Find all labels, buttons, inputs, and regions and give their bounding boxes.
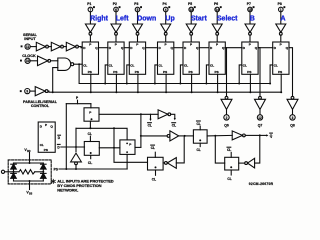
latch M3 <box>120 140 135 155</box>
wire P distribution horizontal <box>66 103 91 105</box>
wire A1 to A2 <box>48 46 51 48</box>
latch M2 <box>84 142 99 156</box>
P/S control buffer <box>35 87 45 96</box>
overbar D out <box>58 134 61 136</box>
svg-text:Start: Start <box>191 15 208 22</box>
junction B2 input tee <box>140 135 142 137</box>
wire Q6 buffer to pin <box>226 109 228 114</box>
svg-text:PS: PS <box>113 70 117 74</box>
junction M5 internal <box>155 166 157 168</box>
svg-text:9: 9 <box>26 90 28 94</box>
terminal pin 5 (P3) <box>135 7 140 12</box>
svg-text:CL: CL <box>227 177 231 181</box>
wire internal CL line to inverter V1 <box>75 128 77 151</box>
svg-text:P: P <box>165 43 167 47</box>
input inverter column 7 <box>245 24 255 32</box>
wire CL of FF4 to clock bus <box>155 65 158 84</box>
svg-text:CL: CL <box>227 148 231 152</box>
svg-text:CL: CL <box>197 122 201 126</box>
junction M3 internal bottom <box>126 151 128 153</box>
junction VDD rail <box>29 162 31 164</box>
svg-text:P8: P8 <box>278 2 282 6</box>
svg-text:SS: SS <box>29 193 33 196</box>
flip-flop stage FF8 <box>273 42 289 74</box>
output buffer Q7 <box>259 96 262 99</box>
junction CL bus / FF2 <box>104 83 106 85</box>
input inverter column 2 <box>111 24 121 32</box>
svg-text:P: P <box>115 43 117 47</box>
wire drop to B2 input and M3 output <box>140 114 142 147</box>
overbar CLbar M6 <box>227 146 231 148</box>
latch M1 <box>84 108 99 121</box>
wire M3 bottom stub to PS line end <box>126 154 128 169</box>
wire inverter to FF3 P input <box>137 35 139 42</box>
wire V3 feedback to B3 output <box>255 135 260 163</box>
wire inverter to FF4 P input <box>165 35 167 42</box>
svg-text:CL: CL <box>274 63 278 67</box>
wire A2 to A3 <box>63 46 66 48</box>
svg-text:PS: PS <box>215 70 219 74</box>
wire M6 to V3 bubble <box>239 162 245 164</box>
wire PS of FF1 to P/S bus <box>90 74 92 92</box>
wire P/S control bus <box>48 91 281 92</box>
svg-text:CL: CL <box>210 63 214 67</box>
svg-text:Left: Left <box>116 15 130 22</box>
svg-text:12: 12 <box>258 116 262 120</box>
wire Q7 to D of FF8 <box>258 47 273 49</box>
svg-text:Up: Up <box>165 15 174 22</box>
NAND gate clock gating <box>58 58 71 70</box>
svg-text:CONTROL: CONTROL <box>31 104 50 108</box>
svg-text:PS: PS <box>247 70 251 74</box>
clock buffer <box>38 56 48 66</box>
wire network to VSS <box>29 181 31 190</box>
buffer B2 (input bubble) <box>167 135 170 138</box>
protection-note mark for P8 <box>283 6 285 8</box>
svg-text:CL: CL <box>109 63 113 67</box>
wire P into latch M1 <box>90 104 92 108</box>
svg-text:P: P <box>249 43 251 47</box>
wire P net tap <box>77 100 79 104</box>
svg-text:CL: CL <box>88 161 92 165</box>
wire CL of FF5 to clock bus <box>180 65 183 84</box>
wire pin 10 to clock buffer <box>30 60 37 62</box>
junction CL bus / FF3 <box>126 83 128 85</box>
wire VDD to network <box>29 152 31 163</box>
svg-text:P: P <box>216 43 218 47</box>
wire PS line <box>59 168 127 170</box>
svg-text:NETWORK.: NETWORK. <box>57 188 78 193</box>
wire inverter to FF2 P input <box>115 35 117 42</box>
overbar CLbar tap <box>148 122 152 124</box>
wire pin P5 to inverter <box>190 12 192 24</box>
flip-flop stage FF3 <box>129 42 145 74</box>
flip-flop stage FF2 <box>108 42 124 74</box>
wire PS of FF4 to P/S bus <box>165 74 167 92</box>
serial buffer A3 <box>66 42 75 51</box>
wire Q4 to D of FF5 <box>174 47 183 49</box>
latch M6 <box>225 157 239 170</box>
serial buffer A1 <box>36 42 45 51</box>
junction PS line / P vertical <box>65 168 67 170</box>
wire M1 clock stub <box>89 121 91 128</box>
svg-text:92CM-26670R: 92CM-26670R <box>249 182 274 186</box>
svg-text:P4: P4 <box>163 2 167 6</box>
P/S control latch U10 <box>38 122 55 152</box>
junction P/S bus / FF8 <box>280 91 282 93</box>
svg-text:CL: CL <box>83 63 87 67</box>
svg-text:P: P <box>136 43 138 47</box>
junction M4 internal <box>199 139 201 141</box>
wire right diode column <box>42 163 44 181</box>
protection diode D4 <box>41 173 47 178</box>
svg-text:CL: CL <box>40 143 44 147</box>
buffer B3 <box>232 131 242 140</box>
wire V1 input from PS line <box>75 165 77 169</box>
junction M2 internal <box>90 152 92 154</box>
svg-text:CLOCK: CLOCK <box>22 54 36 58</box>
svg-text:3: 3 <box>292 116 294 120</box>
arrow to Qbar <box>260 134 267 136</box>
svg-text:INPUT: INPUT <box>24 37 36 41</box>
junction CL bus / FF8 <box>269 83 271 85</box>
terminal pin 4 (P4) <box>163 7 168 12</box>
junction M4 output node <box>214 135 216 137</box>
wire B1 output CLbar stub <box>171 114 175 118</box>
wire M5 to V2 bubble <box>163 162 164 164</box>
protection-note mark P/S control <box>20 90 22 92</box>
wire PS of FF3 to P/S bus <box>137 74 139 92</box>
junction B2 output / feedback <box>184 135 186 137</box>
svg-text:10: 10 <box>26 59 30 63</box>
wire NAND lower input to P/S line <box>53 68 58 93</box>
junction internal CL line / M1 <box>89 127 91 129</box>
wire CL of FF2 to clock bus <box>105 65 108 84</box>
svg-text:P3: P3 <box>134 2 138 6</box>
svg-text:P: P <box>129 142 131 146</box>
wire inverter to FF8 P input <box>280 35 282 42</box>
wire pin P3 to inverter <box>137 12 139 24</box>
overbar Dbar out <box>57 143 60 145</box>
junction P/S bus / FF4 <box>165 91 167 93</box>
flip-flop stage FF1 <box>82 42 98 74</box>
flip-flop stage FF6 <box>209 42 225 74</box>
overbar CLbar <box>172 122 176 124</box>
terminal pin 15 (P7) <box>248 7 253 12</box>
wire M5 clock stub <box>155 170 157 175</box>
svg-text:CL: CL <box>151 146 155 150</box>
svg-text:CL: CL <box>197 148 201 152</box>
junction P/S line / NAND input <box>52 91 54 93</box>
input terminal protection network <box>1 170 4 173</box>
wire A3 to FF1 D input <box>78 47 82 48</box>
protection-note mark serial input <box>21 45 23 47</box>
junction P/S bus / FF1 <box>90 91 92 93</box>
terminal pin 10 clock <box>25 58 30 63</box>
protection resistor <box>19 170 35 174</box>
wire inverter to FF7 P input <box>249 35 251 42</box>
svg-text:CL: CL <box>159 63 163 67</box>
junction M3 internal top <box>126 143 128 145</box>
junction CL bus / FF6 <box>205 83 207 85</box>
note asterisk <box>51 179 55 183</box>
wire inverter to FF5 P input <box>190 35 192 42</box>
wire pin 9 to P/S buffer <box>30 90 35 92</box>
svg-text:PS: PS <box>189 70 193 74</box>
junction Dbar line / V1 column <box>75 146 77 148</box>
svg-text:CL: CL <box>88 132 92 136</box>
wire clock buffer to NAND input <box>51 60 58 62</box>
terminal pin 13 (P5) <box>189 7 194 12</box>
wire CL of FF3 to clock bus <box>127 65 130 84</box>
terminal pin 7 (P1) <box>88 7 93 12</box>
wire PS of FF8 to P/S bus <box>280 74 282 92</box>
wire M6 CLbar stub <box>230 152 232 157</box>
svg-text:P6: P6 <box>214 2 218 6</box>
wire CL of FF8 to clock bus <box>270 65 273 84</box>
svg-text:P: P <box>190 43 192 47</box>
terminal pin 2 (Q6) <box>224 115 229 120</box>
wire network bottom rail <box>14 180 44 182</box>
junction CL bus / FF4 <box>154 83 156 85</box>
flip-flop stage FF7 <box>242 42 258 74</box>
svg-text:CL: CL <box>172 124 176 128</box>
protection-note mark for P3 <box>140 6 142 8</box>
svg-text:Right: Right <box>90 15 109 22</box>
terminal pin 6 (P2) <box>114 7 119 12</box>
wire pin P7 to inverter <box>249 12 251 24</box>
protection-note mark for P1 <box>93 6 95 8</box>
wire Q2 to D of FF3 <box>124 47 129 49</box>
wire M4 clock stub <box>199 143 201 146</box>
junction M6 internal <box>230 166 232 168</box>
protection-note mark for P2 <box>119 6 121 8</box>
svg-text:Q8: Q8 <box>290 123 295 127</box>
junction diode column left <box>13 171 15 173</box>
protection-note mark for P7 <box>253 6 255 8</box>
serial buffer A2 <box>51 42 60 51</box>
protection diode D1 <box>11 164 17 169</box>
protection-note mark clock <box>20 60 22 62</box>
input inverter column 3 <box>133 24 143 32</box>
PS inverter V1 <box>71 153 82 162</box>
svg-text:PS: PS <box>44 148 48 152</box>
wire Q6 tap from FF6 Q <box>225 48 226 97</box>
junction P/S bus / FF6 <box>217 91 219 93</box>
protection-note mark for P4 <box>168 6 170 8</box>
input inverter column 4 <box>161 24 171 32</box>
overbar CLbar M5 <box>151 144 155 146</box>
wire pin P1 to inverter <box>89 12 91 24</box>
wire B3 output <box>245 134 259 136</box>
wire Q8 buffer to pin <box>292 109 294 114</box>
feedback inverter V2 (points left) <box>165 162 168 165</box>
svg-text:P: P <box>89 43 91 47</box>
junction CL bus / FF5 <box>179 83 181 85</box>
wire B2 output to latch M4 <box>179 135 194 137</box>
wire M1 output to clock buffer B1 <box>99 113 158 115</box>
junction PS line / V1 <box>75 168 77 170</box>
svg-text:CL: CL <box>148 124 152 128</box>
protection network dashed box <box>8 160 51 184</box>
wire P distribution vertical <box>65 104 67 169</box>
wire M2 output to latch M3 <box>99 147 120 149</box>
wire Q1 to D of FF2 <box>99 47 108 49</box>
svg-text:P5: P5 <box>188 2 192 6</box>
svg-text:Q7: Q7 <box>258 123 263 127</box>
wire riser to latch M5 input <box>114 128 148 162</box>
svg-text:Q6: Q6 <box>224 123 229 127</box>
wire Q8 tap from FF8 Q <box>289 48 293 97</box>
wire M4 CLbar stub <box>199 126 201 130</box>
wire PS of FF2 to P/S bus <box>115 74 117 92</box>
wire Q7 buffer to pin <box>259 109 261 114</box>
protection diode D2 <box>11 173 17 178</box>
latch M5 <box>148 157 164 170</box>
wire resistor to diode column right <box>35 171 44 173</box>
wire Dbar line to latch M2 <box>61 146 85 148</box>
wire Q7 tap from FF7 Q <box>258 48 260 97</box>
wire Q3 to D of FF4 <box>146 47 158 49</box>
wire PS of FF5 to P/S bus <box>191 74 193 92</box>
input inverter column 5 <box>186 24 196 32</box>
overbar Qbar <box>270 132 273 134</box>
terminal pin 14 (P6) <box>215 7 220 12</box>
wire M2 clock stub <box>90 155 92 158</box>
svg-text:PS: PS <box>278 70 282 74</box>
input inverter column 1 <box>85 24 95 32</box>
latch M4 <box>193 130 207 143</box>
wire left diode column <box>13 163 15 181</box>
svg-text:CL: CL <box>184 63 188 67</box>
svg-text:2: 2 <box>226 116 228 120</box>
junction CL bus / FF7 <box>238 83 240 85</box>
wire inverter to FF1 P input <box>89 35 91 42</box>
svg-text:PS: PS <box>163 70 167 74</box>
wire network top rail <box>14 162 44 164</box>
flip-flop stage FF5 <box>183 42 199 74</box>
svg-text:P: P <box>89 110 91 114</box>
svg-text:P1: P1 <box>87 2 91 6</box>
wire M5 CLbar stub <box>154 152 156 157</box>
junction diode column right <box>42 171 44 173</box>
output buffer Q6 <box>225 96 228 99</box>
junction P/S bus / FF7 <box>249 91 251 93</box>
svg-text:PS: PS <box>135 70 139 74</box>
junction M1 output / B2 drop <box>140 113 142 115</box>
junction clock node <box>78 63 80 65</box>
junction P/S bus / FF5 <box>191 91 193 93</box>
svg-text:Down: Down <box>137 15 156 22</box>
wire M4 output to latch M6 <box>215 136 224 163</box>
wire M6 clock stub <box>230 170 232 175</box>
svg-text:CL: CL <box>130 63 134 67</box>
terminal pin 11 serial input <box>25 44 30 49</box>
overbar CLbar M4 <box>197 120 201 122</box>
terminal pin 1 (P8) <box>279 7 284 12</box>
protection-note mark for P6 <box>220 6 222 8</box>
wire CL tap stub <box>150 114 152 119</box>
wire into buffer B2 <box>141 135 167 137</box>
svg-text:11: 11 <box>26 45 30 49</box>
junction P/S bus / FF2 <box>115 91 117 93</box>
junction M2 output node <box>113 147 115 149</box>
wire CL into M2 top <box>89 136 91 141</box>
wire pin P2 to inverter <box>115 12 117 24</box>
feedback inverter V3 (points left) <box>245 162 248 165</box>
svg-text:A: A <box>281 15 286 22</box>
junction internal CL line / riser <box>113 127 115 129</box>
svg-text:P: P <box>280 43 282 47</box>
wire internal CL line into M3 top <box>76 128 127 140</box>
clock buffer B1 <box>158 110 168 119</box>
wire clock bus CL <box>79 64 270 83</box>
output buffer Q8 <box>291 96 294 99</box>
wire Q6 to D of FF7 <box>225 47 242 49</box>
wire M3 output to drop <box>135 146 141 148</box>
svg-text:DD: DD <box>27 150 31 153</box>
svg-text:P7: P7 <box>247 2 251 6</box>
svg-text:P2: P2 <box>113 2 117 6</box>
protection-note mark for P5 <box>194 6 196 8</box>
wire pin P4 to inverter <box>165 12 167 24</box>
svg-text:PS: PS <box>88 70 92 74</box>
wire pin 11 to buffer A1 <box>30 46 36 48</box>
terminal pin 12 (Q7) <box>257 115 262 120</box>
svg-text:CL: CL <box>152 177 156 181</box>
junction P/S bus / FF3 <box>137 91 139 93</box>
wire inverter to FF6 P input <box>216 35 218 42</box>
protection diode D3 <box>41 164 47 169</box>
svg-text:B: B <box>250 15 255 22</box>
wire PS of FF6 to P/S bus <box>217 74 219 92</box>
wire pin P8 to inverter <box>280 12 282 24</box>
wire CL of FF7 to clock bus <box>239 65 242 84</box>
junction M1 internal <box>91 118 93 120</box>
svg-text:P: P <box>45 123 47 127</box>
svg-text:Select: Select <box>217 15 238 22</box>
junction VSS rail <box>29 180 31 182</box>
wire NAND output to FF1 CL <box>74 63 83 65</box>
wire Q5 to D of FF6 <box>199 47 209 49</box>
wire M4 output to buffer B3 <box>207 134 232 137</box>
terminal pin 3 (Q8) <box>290 115 295 120</box>
wire PS of FF7 to P/S bus <box>249 74 251 92</box>
wire V2 feedback to B2 output <box>176 136 184 163</box>
wire pin P6 to inverter <box>216 12 218 24</box>
input inverter column 6 <box>212 24 222 32</box>
svg-text:CL: CL <box>243 63 247 67</box>
wire CL of FF6 to clock bus <box>206 65 209 84</box>
flip-flop stage FF4 <box>158 42 174 74</box>
input inverter column 8 <box>276 24 286 32</box>
terminal pin 9 parallel/serial control <box>25 89 30 94</box>
wire terminal to resistor <box>5 171 19 173</box>
junction B3 output node <box>259 134 261 136</box>
